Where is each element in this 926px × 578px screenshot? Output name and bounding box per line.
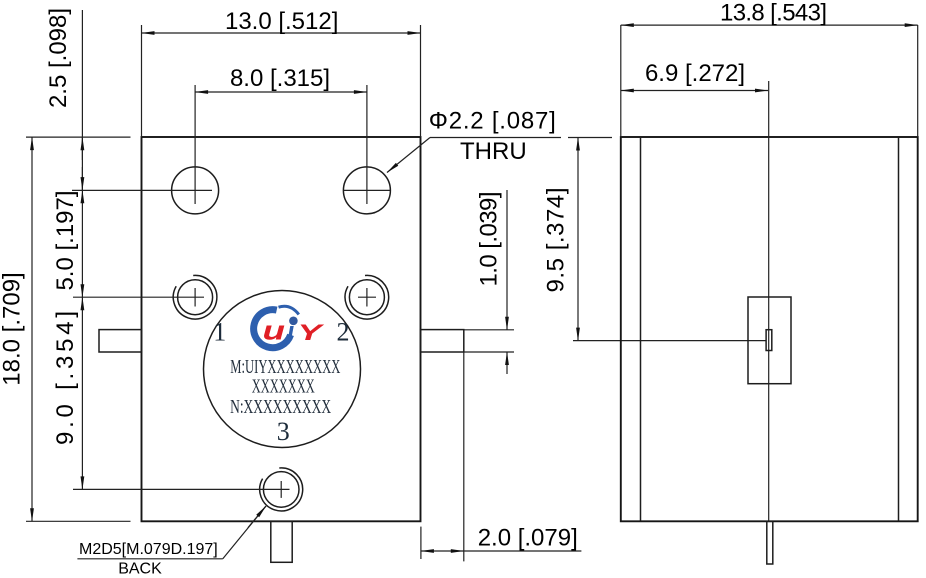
label circle — [204, 291, 361, 448]
M2D5 arrowhead — [248, 506, 266, 528]
centerline horizontal top-left hole — [72, 189, 212, 191]
port 2 centerline vertical — [366, 288, 368, 307]
dim 13.8 extension left — [620, 25, 622, 137]
dim 2.0 line — [421, 550, 464, 552]
svg-text:6.9 [.272]: 6.9 [.272] — [645, 60, 745, 87]
dim 9.5 slot leader — [573, 340, 766, 342]
svg-text:13.8 [.543]: 13.8 [.543] — [720, 0, 827, 27]
dim 13.8 line — [621, 24, 918, 26]
centerline vertical top-right hole — [366, 85, 368, 204]
svg-text:M2D5[M.079D.197]: M2D5[M.079D.197] — [79, 541, 218, 558]
logo i dot — [289, 317, 298, 326]
svg-text:13.0 [.512]: 13.0 [.512] — [225, 8, 338, 35]
logo swoosh tail — [279, 306, 299, 314]
dim 2.5 lower arrow — [81, 167, 83, 190]
svg-text:9.0 [.354]: 9.0 [.354] — [52, 311, 79, 445]
svg-text:18.0 [.709]: 18.0 [.709] — [0, 272, 26, 385]
port 3 centerline horizontal — [73, 488, 290, 490]
svg-text:ı: ı — [287, 316, 294, 346]
svg-text:1: 1 — [213, 318, 226, 347]
dim 1.0 extension bottom — [464, 351, 514, 353]
dim 9.5 top extension — [568, 137, 612, 139]
dim 6.9 line — [621, 90, 768, 92]
dim 9.5 line — [577, 138, 579, 341]
svg-text:9.5 [.374]: 9.5 [.374] — [543, 188, 570, 293]
port 1 pin tab left — [99, 330, 142, 352]
port 3 hole circle — [263, 472, 299, 508]
dim 2.0 leader — [464, 550, 582, 552]
dim 8.0 line — [195, 91, 367, 93]
dia 2.2 leader underline — [430, 137, 561, 139]
dim 2.0 extension right — [463, 352, 465, 561]
M2D5 leader arrow — [223, 506, 266, 559]
side view center line — [768, 81, 770, 521]
dim 13.0 extension right — [420, 25, 422, 137]
svg-text:THRU: THRU — [460, 138, 527, 165]
port 3 centerline vertical — [280, 481, 282, 498]
svg-text:8.0 [.315]: 8.0 [.315] — [230, 65, 330, 92]
port 3 hole outer arc — [260, 468, 303, 511]
port 1 centerline horizontal — [73, 296, 204, 298]
svg-text:N:XXXXXXXXX: N:XXXXXXXXX — [230, 396, 331, 418]
centerline vertical top-left hole — [194, 85, 196, 204]
dim 1.0 upper arrow — [506, 190, 508, 330]
body outline front view — [142, 137, 421, 521]
dim 13.0 line — [142, 32, 421, 34]
dim 2.5 leader line — [81, 10, 83, 190]
svg-text:2.0 [.079]: 2.0 [.079] — [478, 525, 578, 552]
dim 9.0 line — [81, 297, 83, 489]
dim 2.5 upper arrow — [81, 137, 83, 160]
side view inner edge left — [640, 137, 642, 521]
dim 18.0 line — [31, 137, 33, 521]
svg-text:Y: Y — [298, 320, 326, 345]
dim 2.0 extension left — [420, 527, 422, 559]
port 2 hole circle — [349, 280, 384, 315]
port 1 hole outer arc — [173, 275, 217, 319]
dim 13.8 extension right — [917, 25, 919, 137]
svg-text:3: 3 — [277, 417, 290, 446]
side connector block — [748, 297, 791, 384]
svg-text:BACK: BACK — [118, 561, 162, 578]
svg-text:2.5 [.098]: 2.5 [.098] — [45, 8, 72, 108]
side view inner edge right — [898, 137, 900, 521]
port 3 pin tab bottom — [271, 521, 292, 562]
body outline side view — [621, 137, 918, 521]
mounting hole top-left — [172, 167, 219, 214]
svg-text:2: 2 — [337, 318, 350, 347]
svg-text:5.0 [.197]: 5.0 [.197] — [52, 190, 79, 290]
M2D5 note underline — [77, 558, 222, 560]
side bottom pin — [767, 521, 773, 564]
svg-text:1.0 [.039]: 1.0 [.039] — [476, 192, 503, 287]
mounting hole top-right — [343, 167, 390, 214]
dim 18.0 top extension — [26, 136, 131, 138]
dim 1.0 extension top — [464, 329, 514, 331]
port 1 hole circle — [178, 280, 213, 315]
centerline horizontal top-right hole — [344, 189, 390, 191]
port 2 hole outer arc — [345, 275, 389, 319]
dim 13.0 extension left — [141, 25, 143, 137]
logo ring — [254, 310, 291, 348]
port 2 pin tab right — [421, 330, 464, 352]
side connector slot — [766, 330, 772, 351]
svg-text:u: u — [263, 316, 286, 346]
dim 1.0 lower arrow — [506, 352, 508, 374]
svg-text:XXXXXXX: XXXXXXX — [252, 375, 315, 397]
dim 5.0 line — [81, 190, 83, 297]
dim 18.0 bottom extension — [26, 520, 131, 522]
port 1 centerline vertical — [194, 288, 196, 307]
port 2 centerline horizontal — [358, 296, 376, 298]
dia 2.2 leader arrow — [387, 138, 430, 173]
svg-text:Φ2.2 [.087]: Φ2.2 [.087] — [429, 108, 556, 135]
